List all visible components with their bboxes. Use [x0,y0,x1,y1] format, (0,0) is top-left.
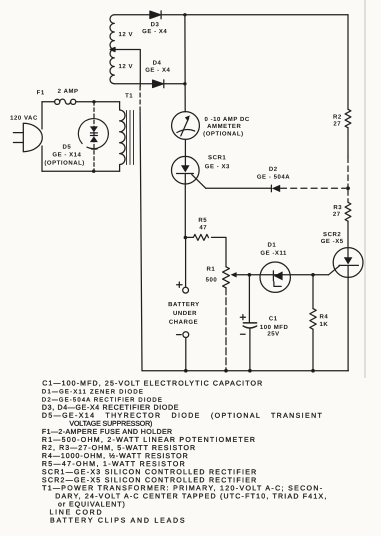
transformer T1 core [127,111,134,165]
C1 minus sign [241,333,246,335]
svg-text:D3, D4—GE-X4 RECETIFIER DIODE: D3, D4—GE-X4 RECETIFIER DIODE [42,405,179,412]
wire: SCR1 cathode down [184,174,186,238]
wire: center tap [115,50,141,87]
node: right bus junction [346,186,350,190]
wire: right bus top [347,15,349,110]
svg-text:R1—500-OHM, 2-WATT LINEAR POTE: R1—500-OHM, 2-WATT LINEAR POTENTIOMETER [42,437,256,444]
transformer T1 primary winding [120,102,125,171]
wire: primary loop left lower [41,146,43,171]
svg-text:GE - X14: GE - X14 [52,151,81,158]
svg-text:BATTERY: BATTERY [168,301,200,308]
svg-text:(OPTIONAL): (OPTIONAL) [44,160,85,167]
C1 plus sign [240,315,245,320]
svg-text:D2: D2 [269,166,278,173]
svg-text:25V: 25V [267,331,279,338]
page artifact line [364,0,366,378]
wire: fuse to transformer [76,101,120,103]
svg-text:or EQUIVALENT): or EQUIVALENT) [58,500,126,508]
svg-text:R5: R5 [198,217,207,224]
svg-text:100 MFD: 100 MFD [260,324,289,331]
wire: center bus top [184,15,186,112]
node: R4 top junction [311,273,315,277]
SCR1 cathode bar [177,173,194,175]
svg-text:R2: R2 [333,114,342,121]
wire: primary loop left upper [41,102,43,129]
node: R4 rail junction [311,369,315,373]
battery minus terminal [183,332,189,338]
svg-text:D1—GE-X11 ZENER DIODE: D1—GE-X11 ZENER DIODE [42,388,144,395]
svg-text:CHARGE: CHARGE [169,319,198,326]
svg-text:C1: C1 [269,315,278,322]
node: C1 rail junction [248,369,252,373]
SCR1 circle [172,156,200,184]
diode D4 [153,80,164,87]
thyrector D5 dashed lead [93,102,95,171]
svg-text:D2—GE-504A RECTIFIER DIODE: D2—GE-504A RECTIFIER DIODE [42,397,163,404]
node: top rail junction [183,13,186,16]
ammeter scale arc [177,130,195,133]
diode D2 [272,185,281,192]
resistor R4 [310,309,316,330]
SCR2 gate lead [329,265,341,274]
svg-text:120 VAC: 120 VAC [10,115,38,122]
svg-text:R3: R3 [333,204,342,211]
center-tap arrow [110,47,115,51]
capacitor C1 bottom plate [243,326,256,328]
wire: center tap rail down [140,112,142,371]
svg-text:27: 27 [333,120,341,127]
potentiometer R1 element [223,267,230,288]
svg-text:SCR1: SCR1 [208,154,226,161]
capacitor C1 top plate [243,322,256,324]
SCR2 circle [333,248,363,278]
capacitor C1 top lead [248,275,250,323]
resistor R5 [185,234,208,240]
wire: center tap rail (dashed part) [139,86,141,112]
SCR2 cathode bar [339,264,358,266]
zener D1 triangle [274,271,283,280]
wire: ammeter to SCR1 [184,139,186,165]
node: wiper junction [248,273,252,277]
wire: battery minus to rail [185,338,187,371]
svg-text:GE - 504A: GE - 504A [257,174,290,181]
fuse F1 [55,99,60,104]
wire: secondary bottom to D4 [114,83,152,85]
plug prong upper [13,132,23,134]
svg-text:AMMETER: AMMETER [207,123,241,130]
SCR2 anode triangle [344,257,353,264]
svg-text:VOLTAGE SUPPRESSOR): VOLTAGE SUPPRESSOR) [69,420,152,428]
wire: R5 to R1 [212,237,227,266]
zener D1 circle [260,262,290,292]
potentiometer R1 wiper arrow [231,272,237,277]
wire: right bus dashed above junction [347,157,349,186]
thyrector D5 circle [78,119,108,150]
svg-text:47: 47 [199,224,207,231]
wire: primary top left [42,101,55,103]
svg-text:BATTERY CLIPS AND LEADS: BATTERY CLIPS AND LEADS [50,518,186,525]
svg-text:F1: F1 [37,89,45,96]
wire: right bus dashed below junction [347,190,349,202]
diode D2 cathode bar [270,185,272,192]
svg-text:12 V: 12 V [119,31,134,38]
battery plus sign [177,282,182,287]
wire: D2 dashed to right bus [281,187,346,189]
node: R5 junction [184,236,188,240]
svg-text:2 AMP: 2 AMP [58,88,79,95]
wire: secondary top to D3 [114,14,149,16]
svg-text:R5—47-OHM, 1-WATT RESISTOR: R5—47-OHM, 1-WATT RESISTOR [42,461,186,468]
ammeter M1 circle [172,112,200,140]
ammeter needle [181,118,189,136]
thyrector D5 symbol [90,126,98,142]
zener D1 cathode bar [273,271,281,287]
node: D5 bottom junction [92,170,95,173]
wire: primary bottom [42,170,120,172]
svg-text:T1—POWER TRANSFORMER: PRIMARY,: T1—POWER TRANSFORMER: PRIMARY, 120-VOLT … [42,485,323,492]
svg-text:GE -X11: GE -X11 [260,250,287,257]
svg-text:F1—2-AMPERE FUSE AND HOLDER: F1—2-AMPERE FUSE AND HOLDER [42,429,173,436]
svg-text:27: 27 [333,211,341,218]
svg-text:SCR1—GE-X3 SILICON CONTROLLED: SCR1—GE-X3 SILICON CONTROLLED RECTIFIER [42,469,258,476]
diode D4 cathode bar [163,80,165,88]
plug prong lower [13,142,23,144]
svg-text:1K: 1K [319,321,328,328]
wire: wiper to gate line [236,274,328,276]
svg-text:0 -10 AMP DC: 0 -10 AMP DC [204,116,249,123]
battery minus sign [177,334,182,336]
svg-text:LINE CORD: LINE CORD [49,509,103,516]
battery plus terminal [183,287,189,293]
wire: gate line to D2 [206,187,271,189]
svg-text:T1: T1 [125,92,133,99]
svg-text:UNDER: UNDER [173,310,197,317]
node: D4 junction [183,82,186,85]
svg-text:D4: D4 [153,60,162,67]
resistor R4 bottom lead [312,329,314,371]
svg-text:D1: D1 [268,242,277,249]
wire: D3 to top rail corner [161,14,348,16]
svg-text:R4—1000-OHM, ½-WATT RESISTOR: R4—1000-OHM, ½-WATT RESISTOR [42,453,189,460]
svg-text:R2, R3—27-OHM, 5-WATT RESISTOR: R2, R3—27-OHM, 5-WATT RESISTOR [42,445,196,452]
wire: D4 to center bus [164,83,185,85]
wire: bottom rail [142,370,348,372]
svg-text:DARY, 24-VOLT A-C CENTER TAPPE: DARY, 24-VOLT A-C CENTER TAPPED (UTC-FT1… [55,492,327,500]
svg-text:R4: R4 [319,313,328,320]
transformer T1 secondary winding [110,15,114,84]
svg-text:R1: R1 [206,266,215,273]
ammeter needle arrowhead [185,115,190,121]
svg-text:GE -X5: GE -X5 [321,238,344,245]
wire: R1 lower lead [225,288,227,371]
svg-text:GE - X3: GE - X3 [205,163,230,170]
svg-text:D5—GE-X14 THYRECTOR DIODE (OPT: D5—GE-X14 THYRECTOR DIODE (OPTIONAL TRAN… [42,412,323,420]
node: battery rail junction [184,369,188,373]
diode D3 [150,11,161,18]
svg-text:D3: D3 [151,21,160,28]
svg-text:GE - X4: GE - X4 [145,67,170,74]
resistor R3 [345,202,351,221]
wire: R3 to SCR2 [347,221,349,257]
svg-text:SCR2—GE-X5 SILICON CONTROLLED: SCR2—GE-X5 SILICON CONTROLLED RECTIFIER [42,477,258,484]
plug 120 VAC body [23,123,42,151]
svg-text:(OPTIONAL): (OPTIONAL) [203,131,244,138]
wire: right bus under R2 [347,128,349,157]
wire: SCR2 cathode down [347,266,349,371]
SCR1 gate lead [192,175,206,189]
svg-text:12 V: 12 V [119,63,134,70]
wire: bus to battery plus [185,238,187,288]
SCR1 anode triangle [181,165,190,172]
svg-text:SCR2: SCR2 [323,231,341,238]
capacitor C1 bottom lead [249,328,251,370]
svg-text:C1—100-MFD, 25-VOLT ELECTROLYT: C1—100-MFD, 25-VOLT ELECTROLYTIC CAPACIT… [42,380,263,387]
svg-text:500: 500 [206,277,218,284]
diode D3 cathode bar [160,11,162,19]
node: D5 top junction [92,100,95,103]
svg-text:D5: D5 [62,144,71,151]
resistor R4 top lead [312,275,314,309]
resistor R2 [345,109,351,127]
svg-text:GE - X4: GE - X4 [142,28,167,35]
node: R1 rail junction [224,369,228,373]
